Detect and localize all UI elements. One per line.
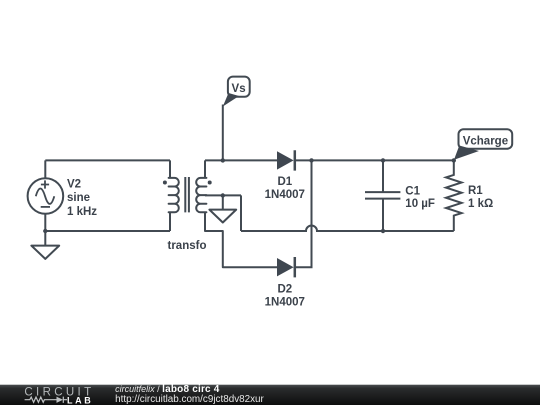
svg-text:1N4007: 1N4007	[265, 189, 305, 201]
svg-text:D2: D2	[277, 283, 292, 295]
svg-text:sine: sine	[67, 192, 90, 204]
svg-text:LAB: LAB	[67, 396, 93, 405]
svg-text:Vcharge: Vcharge	[463, 135, 508, 147]
svg-text:Vs: Vs	[232, 83, 246, 95]
svg-text:D1: D1	[277, 176, 292, 188]
svg-text:R1: R1	[468, 185, 483, 197]
svg-text:10 µF: 10 µF	[405, 198, 435, 210]
svg-text:V2: V2	[67, 179, 81, 191]
svg-text:1 kΩ: 1 kΩ	[468, 198, 493, 210]
svg-text:1N4007: 1N4007	[265, 297, 305, 309]
svg-text:1 kHz: 1 kHz	[67, 206, 97, 218]
svg-text:http://circuitlab.com/c9jct8dv: http://circuitlab.com/c9jct8dv82xur	[115, 394, 264, 405]
svg-text:C1: C1	[405, 185, 420, 197]
svg-text:transfo: transfo	[168, 240, 207, 252]
